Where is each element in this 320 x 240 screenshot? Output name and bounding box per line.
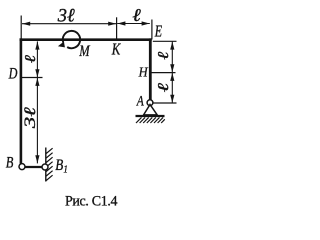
moment arc M	[63, 31, 80, 48]
svg-text:H: H	[138, 64, 149, 80]
arrow down to H tick	[170, 64, 174, 72]
extension line above right corner E	[151, 20, 153, 40]
svg-text:D: D	[8, 65, 18, 83]
svg-text:B: B	[6, 154, 14, 172]
svg-text:ℓ: ℓ	[156, 83, 172, 92]
svg-text:K: K	[111, 41, 121, 59]
left dimension line (l and 3l)	[36, 41, 38, 163]
pin circle at A	[147, 100, 153, 106]
extension tick at K	[116, 17, 118, 39]
arrow down to A ext	[170, 95, 174, 103]
D tick	[21, 77, 43, 79]
moment arrowhead	[58, 42, 65, 48]
dimension line 3l (top)	[22, 23, 116, 25]
pin circle at B1	[42, 164, 48, 170]
arrowhead right of 3l	[108, 22, 116, 26]
arrow up to beam (left dim)	[35, 42, 39, 50]
svg-text:A: A	[136, 92, 145, 109]
arrow down to D tick	[35, 69, 39, 77]
link bar B-B1	[22, 166, 45, 168]
right dimension line	[171, 41, 173, 102]
extension line above left corner	[20, 16, 22, 39]
arrow up to E ext	[170, 42, 174, 50]
arrowhead left of l	[117, 21, 125, 25]
arrowhead left of 3l	[22, 22, 30, 26]
wall hatch at B1	[46, 148, 52, 180]
pin circle at B	[19, 164, 25, 170]
svg-text:ℓ: ℓ	[155, 51, 171, 60]
svg-text:ℓ: ℓ	[22, 54, 38, 63]
svg-text:ℓ: ℓ	[132, 6, 140, 26]
right column (member E-H-A)	[149, 38, 152, 100]
svg-text:Рис. С1.4: Рис. С1.4	[65, 193, 118, 210]
wall line at B1	[45, 148, 47, 182]
svg-text:3ℓ: 3ℓ	[57, 5, 75, 26]
left column (member to B)	[20, 38, 23, 163]
H tick	[152, 72, 176, 74]
support triangle at A	[144, 105, 158, 115]
svg-text:M: M	[78, 42, 90, 60]
ground hatch at A	[136, 117, 165, 123]
svg-text:3ℓ: 3ℓ	[21, 106, 39, 129]
dimension line l (top)	[117, 23, 150, 25]
ground line at A	[136, 115, 165, 117]
svg-text:E: E	[154, 23, 162, 41]
extension line right of E	[153, 40, 177, 42]
beam top (member D-K-E)	[20, 38, 152, 41]
extension line right of A	[153, 102, 177, 104]
arrowhead right of l	[142, 21, 150, 25]
arrow up from below D tick	[35, 78, 39, 86]
arrow up from below H tick	[170, 73, 174, 81]
arrow down to B level	[35, 155, 39, 163]
